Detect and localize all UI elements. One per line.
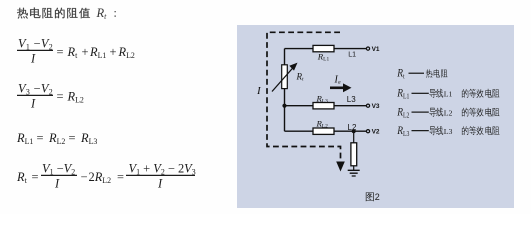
svg-text:V3: V3 <box>372 103 380 110</box>
svg-text:+: + <box>82 45 89 59</box>
svg-text:V1: V1 <box>372 46 380 53</box>
svg-text:I: I <box>54 177 60 191</box>
current arrow I <box>330 87 344 90</box>
wire L3 <box>285 105 367 107</box>
svg-text:+: + <box>110 45 117 59</box>
formula 1 <box>17 37 135 66</box>
legend text 导线L1 的等效电阻 <box>429 89 443 98</box>
formula 4 <box>16 162 196 191</box>
svg-text:L2: L2 <box>444 108 453 117</box>
svg-text:L2: L2 <box>348 123 357 132</box>
svg-text:=: = <box>32 170 39 184</box>
svg-text:2: 2 <box>375 192 380 202</box>
svg-text:=: = <box>57 45 64 59</box>
thermistor Rt <box>282 65 288 89</box>
resistor RL2 <box>313 128 334 134</box>
terminal V2 <box>366 130 369 133</box>
svg-text:I: I <box>30 52 36 66</box>
svg-text:L3: L3 <box>444 127 453 136</box>
svg-text:=: = <box>57 90 64 104</box>
svg-text:I: I <box>157 177 163 191</box>
svg-text:=: = <box>37 131 44 145</box>
resistor load <box>351 143 357 166</box>
legend dash <box>409 73 425 74</box>
arrow through Rt <box>272 66 295 92</box>
terminal V3 <box>366 104 369 107</box>
wire dashed current loop <box>267 32 341 163</box>
wire L2 <box>285 130 367 132</box>
legend text 导线L3 的等效电阻 <box>429 126 443 135</box>
svg-text:=: = <box>117 170 124 184</box>
svg-text:V3 −V2: V3 −V2 <box>18 82 53 97</box>
arrow down current out <box>336 162 345 172</box>
svg-text:L3: L3 <box>347 95 356 104</box>
label 图2 <box>366 192 374 201</box>
svg-text:L1: L1 <box>348 51 356 58</box>
junction node on L2 at ground branch <box>352 129 356 133</box>
terminal V1 <box>366 47 369 50</box>
legend text 导线L2 的等效电阻 <box>429 108 443 117</box>
svg-text:V1 −V2: V1 −V2 <box>42 162 75 177</box>
legend dash <box>412 130 429 131</box>
legend dash <box>412 112 429 113</box>
panel background <box>237 25 514 208</box>
formula 3 <box>16 131 97 146</box>
svg-text:V1 −V2: V1 −V2 <box>18 37 53 52</box>
wire to ground <box>353 166 355 171</box>
wire main vertical <box>284 49 286 132</box>
wire ground branch <box>353 131 355 143</box>
ground symbol <box>348 170 360 176</box>
resistor RL3 <box>313 103 334 109</box>
legend text 热电阻 <box>426 69 448 78</box>
wire L1 <box>285 48 367 50</box>
svg-text:V2: V2 <box>372 129 380 136</box>
svg-text:I: I <box>30 97 36 111</box>
legend dash <box>412 93 429 94</box>
svg-text:−: − <box>81 170 88 184</box>
junction node on vertical at L3 <box>282 104 286 108</box>
svg-text:L1: L1 <box>444 90 453 99</box>
svg-text:=: = <box>69 131 76 145</box>
resistor RL1 <box>313 45 334 51</box>
formula 2 <box>17 82 84 111</box>
title text 热电阻的阻值 <box>17 8 90 19</box>
